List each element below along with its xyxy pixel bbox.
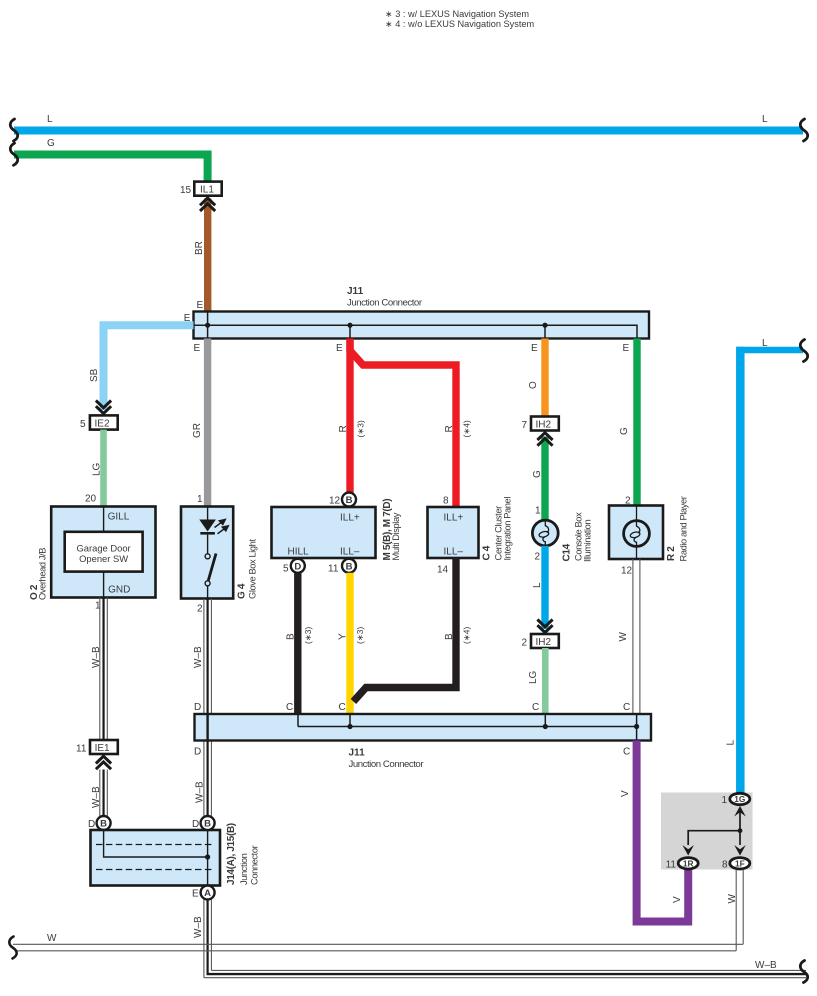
wire W-B IE1 to J14 [91,770,107,817]
node violet [634,724,639,729]
wire G (green) J11 to R2 [619,339,641,507]
junction connector J14(A), J15(B) [91,823,260,885]
wire W (white) R2 to J11 lower [618,559,640,714]
svg-text:Illumination: Illumination [583,520,593,562]
svg-text:Junction: Junction [239,853,249,885]
svg-text:D: D [192,819,199,830]
component C4 Center Cluster Integration Panel [428,495,513,575]
svg-text:G: G [532,470,543,478]
svg-text:1: 1 [197,494,203,505]
svg-text:E: E [197,300,204,311]
wire LG (light green) IH2 to J11 lower [528,648,549,714]
wire R (red) branch to C4 pin 8 [350,340,472,507]
svg-text:W–B: W–B [195,781,206,803]
arrow into 1R (down) [682,845,694,856]
pin 5 circled D (M5 bottom) [283,559,305,575]
svg-text:W–B: W–B [193,916,204,938]
svg-text:Junction Connector: Junction Connector [349,759,425,770]
svg-text:1F: 1F [735,858,745,868]
svg-text:12: 12 [621,565,633,576]
connector 1G pin 1 [721,793,749,806]
node [738,828,743,833]
svg-text:V: V [672,896,683,903]
pin E circled A (J14 bottom) [192,886,215,900]
svg-text:ILL+: ILL+ [444,513,464,524]
svg-text:R: R [444,425,455,432]
svg-text:5: 5 [80,419,86,430]
node brown/gray [205,323,210,328]
svg-text:G: G [47,138,55,149]
svg-text:E: E [194,343,201,354]
connector IE1 pin 11 [76,740,118,754]
svg-text:IL1: IL1 [200,185,214,196]
svg-text:Glove Box Light: Glove Box Light [248,539,258,599]
svg-text:W: W [618,632,629,642]
svg-text:C: C [532,702,539,713]
svg-text:J11: J11 [347,286,364,297]
svg-text:L: L [532,582,543,588]
wire G (green) IH2 to C14 [532,437,549,521]
wire W-B from G4 [193,599,211,817]
svg-text:E: E [531,343,538,354]
wire B (black) C4 pin 14 to yellow junction [353,558,471,702]
arrow into 1F (down) [734,845,746,856]
wire Y (yellow) M5 pin 11 to J11 lower [338,573,366,715]
svg-text:2: 2 [535,552,541,563]
svg-text:B: B [204,819,211,830]
svg-text:5: 5 [283,563,289,574]
connector 1F pin 8 [722,858,750,871]
connector 1R pin 11 [666,858,699,871]
svg-text:E: E [623,343,630,354]
svg-text:ILL–: ILL– [444,547,464,558]
switch [207,535,209,554]
svg-text:E: E [192,889,199,900]
wire R (red) J11 to M5 pin 12 [338,339,366,494]
svg-text:2: 2 [522,637,528,648]
svg-text:(∗4): (∗4) [462,420,472,437]
LED lamp [207,507,209,521]
svg-text:C 4: C 4 [482,545,493,560]
break symbol left of W wire [9,937,16,959]
svg-text:2: 2 [197,604,203,615]
svg-text:A: A [204,888,211,899]
wire G (green) top horizontal [14,138,208,182]
J11 bus line [194,312,638,339]
svg-text:D: D [194,747,201,758]
svg-text:8: 8 [722,859,728,870]
garage door opener switch [65,532,143,572]
svg-text:C14: C14 [562,543,573,561]
svg-text:B: B [444,633,455,640]
wire GR (gray) [192,339,211,507]
connector IL1 pin 15 [180,182,222,196]
wire B (black) M5 pin 5 to J11 lower [286,573,314,715]
svg-text:BR: BR [194,241,205,255]
svg-text:Integration Panel: Integration Panel [503,497,513,561]
node yellow [347,724,352,729]
connector IH2 pin 7 [522,417,559,431]
svg-text:C: C [623,747,630,758]
svg-text:(∗3): (∗3) [356,420,366,437]
svg-text:IH2: IH2 [536,420,552,431]
svg-text:J11: J11 [349,748,366,759]
svg-text:W–B: W–B [91,646,102,668]
chevron toward IH2 (pointing down) [537,620,552,633]
wire W (white) from 1F to left edge [13,870,743,951]
wire L (blue) top horizontal [14,114,803,135]
svg-text:B: B [346,495,353,506]
pin D circled B (J14 left) [88,816,111,830]
junction connector J11 (lower) [194,702,651,770]
svg-text:(∗4): (∗4) [462,627,472,644]
component G4 Glove Box Light [181,507,258,615]
wire BR (brown) [194,199,211,314]
wire O (orange) [528,339,549,417]
svg-text:Connector: Connector [250,845,260,885]
svg-text:B: B [346,561,353,572]
svg-text:W–B: W–B [755,960,777,971]
svg-text:12: 12 [329,495,341,506]
connector block (gray) [661,793,753,870]
wire SB (sky blue) [89,325,194,410]
svg-text:1: 1 [535,506,541,517]
branch to 1R [688,831,740,845]
svg-text:GR: GR [192,423,203,438]
svg-text:Junction Connector: Junction Connector [347,298,423,309]
svg-text:∗ 3 : w/ LEXUS Navigation Syst: ∗ 3 : w/ LEXUS Navigation System [385,9,529,19]
svg-text:1: 1 [721,795,727,806]
component M5(B)/M7(D) Multi Display [272,499,402,561]
svg-text:R 2: R 2 [666,546,677,561]
svg-text:SB: SB [89,368,100,382]
svg-text:7: 7 [522,420,528,431]
svg-text:GND: GND [108,585,130,596]
break symbol right of L wire [800,340,807,362]
J11 lower bus line [298,714,637,741]
svg-text:IH2: IH2 [536,637,552,648]
break symbol right of W-B wire [800,961,807,983]
svg-text:Garage Door: Garage Door [76,543,130,554]
wire W-B bottom horizontal [204,960,806,978]
connector IE2 pin 5 [80,415,118,429]
svg-text:J14(A), J15(B): J14(A), J15(B) [226,823,237,885]
svg-text:G: G [619,427,630,435]
lamp R2 [624,521,650,547]
svg-text:1R: 1R [683,858,694,868]
pin D circled B (J14 right) [192,816,215,830]
svg-text:B: B [286,633,297,640]
LED arrows [215,520,229,534]
svg-text:1G: 1G [734,794,745,804]
break symbol left of L wire [10,119,17,141]
svg-text:LG: LG [528,670,539,684]
pin 12 circled B (M5 top) [329,493,356,507]
svg-text:C: C [623,702,630,713]
lamp C14 Console Box Illumination [532,512,592,563]
svg-text:20: 20 [85,494,97,505]
component R2 Radio and Player [609,496,689,576]
svg-text:11: 11 [76,743,87,754]
component O2 Overhead J/B [29,507,156,612]
svg-text:ILL+: ILL+ [340,513,360,524]
svg-text:L: L [726,740,737,746]
svg-text:IE2: IE2 [95,419,110,430]
connector IH2 pin 2 [522,634,559,648]
wire V (violet) J11 to 1R [620,741,688,922]
node orange [542,323,547,328]
svg-text:15: 15 [180,185,192,196]
chevron toward IL1 (pointing up) [200,198,215,211]
svg-text:C: C [286,702,293,713]
W-B wire crossing bar [206,714,208,741]
svg-text:W–B: W–B [193,646,204,668]
pin 11 circled B (M5 bottom) [328,559,356,575]
svg-text:O: O [528,381,539,389]
svg-text:R: R [338,425,349,432]
svg-text:(∗3): (∗3) [355,627,365,644]
svg-text:D: D [88,819,95,830]
svg-text:G 4: G 4 [237,583,248,599]
svg-text:L: L [762,114,768,125]
svg-text:V: V [620,790,631,797]
svg-text:11: 11 [328,563,339,574]
svg-text:ILL–: ILL– [340,547,360,558]
svg-text:Radio and Player: Radio and Player [679,496,689,561]
break symbol right of L wire [800,119,807,141]
branch to 1F [739,831,741,845]
svg-text:D: D [194,702,201,713]
svg-text:L: L [762,338,768,349]
chevron from IE1 (pointing up) [96,756,111,769]
chevron toward IE2 (pointing down) [96,401,111,414]
svg-text:(∗3): (∗3) [303,627,313,644]
arrow into 1G (up) [739,812,741,831]
svg-text:B: B [100,819,107,830]
svg-text:C: C [339,702,346,713]
svg-text:HILL: HILL [288,547,310,558]
wire L (blue) C14 to IH2 [532,546,549,629]
svg-text:Multi Display: Multi Display [391,512,401,560]
svg-text:Y: Y [338,633,349,640]
svg-text:11: 11 [666,859,677,870]
svg-text:W: W [727,894,738,904]
svg-text:L: L [47,114,53,125]
wire W-B from J14 pin A to bottom [193,900,211,978]
svg-text:LG: LG [92,462,103,476]
wire W-B (white-black) from O2 GND [91,598,107,741]
junction connector J11 (upper) [184,286,649,354]
node lg [543,724,548,729]
svg-text:IE1: IE1 [95,743,110,754]
node red [347,323,352,328]
svg-text:E: E [336,343,343,354]
svg-text:W–B: W–B [91,786,102,808]
wire L (blue) top right [726,338,804,793]
wire LG (light green) left [85,430,107,507]
svg-text:14: 14 [437,564,449,575]
svg-text:Overhead J/B: Overhead J/B [38,548,48,600]
svg-text:W: W [47,933,57,944]
break symbol left of G wire [10,143,17,165]
svg-text:Opener SW: Opener SW [79,553,128,564]
svg-text:∗ 4 : w/o LEXUS Navigation Sys: ∗ 4 : w/o LEXUS Navigation System [385,19,534,29]
svg-text:8: 8 [443,495,449,506]
chevron from IH2 (pointing up) [537,433,552,446]
svg-text:D: D [294,561,301,572]
svg-text:GILL: GILL [108,512,130,523]
